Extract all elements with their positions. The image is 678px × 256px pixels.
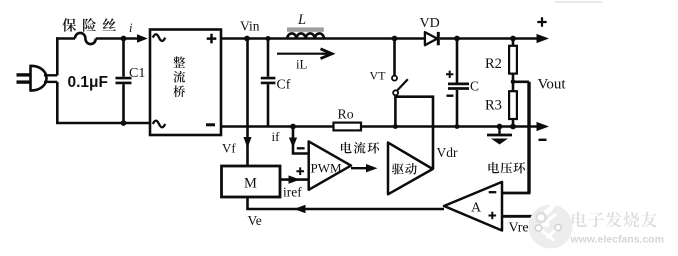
svg-text:www.elecfans.com: www.elecfans.com bbox=[570, 234, 665, 246]
node: R3 bottom bbox=[510, 124, 516, 130]
svg-text:Vf: Vf bbox=[222, 141, 236, 156]
label 电压环 bbox=[488, 162, 499, 173]
svg-text:VD: VD bbox=[420, 16, 440, 31]
wire: plug terminals bbox=[44, 74, 57, 76]
arrow iL bbox=[277, 53, 322, 55]
resistor R2 bbox=[512, 39, 515, 46]
bridge - pin bbox=[206, 123, 215, 126]
svg-text:Cf: Cf bbox=[277, 77, 291, 92]
svg-text:0.1μF: 0.1μF bbox=[68, 74, 109, 91]
node: C bottom on bus bbox=[455, 124, 460, 129]
svg-text:Vin: Vin bbox=[240, 19, 260, 34]
svg-text:iL: iL bbox=[296, 58, 308, 72]
node: ground junction bbox=[497, 124, 503, 130]
arrow into driver bbox=[366, 164, 378, 172]
watermark text 电子发烧友 bbox=[572, 212, 587, 227]
output arrow + terminal bbox=[537, 34, 550, 43]
wire: divider tap to error amp - input bbox=[511, 80, 516, 85]
wire: PWM out to driver bbox=[351, 167, 368, 169]
wire: top bus after diode bbox=[440, 37, 539, 40]
wire: Vref into + input bbox=[502, 215, 537, 218]
wire: top bus (bridge+ to diode) bbox=[221, 37, 425, 40]
bridge ~ pin (top) bbox=[153, 34, 165, 41]
C polarity - bbox=[447, 94, 454, 96]
arrow: if downward bbox=[289, 138, 297, 149]
svg-text:C: C bbox=[470, 79, 479, 94]
svg-text:if: if bbox=[272, 129, 281, 144]
label - (output) bbox=[539, 139, 547, 141]
fuse (breaker hump) bbox=[75, 33, 96, 44]
svg-text:i: i bbox=[129, 21, 133, 35]
inductor L winding bbox=[287, 33, 324, 38]
label + (PWM input) bbox=[296, 167, 304, 175]
wire: if sense into PWM - input bbox=[293, 127, 309, 154]
label - (A input) bbox=[489, 191, 497, 193]
diode VD bbox=[425, 32, 437, 45]
svg-text:C1: C1 bbox=[129, 66, 145, 81]
comparator PWM bbox=[309, 141, 351, 189]
label + (output) bbox=[537, 17, 546, 26]
resistor R3 bbox=[509, 91, 517, 119]
arrow: Vf downward bbox=[243, 137, 251, 148]
wire: fuse to bridge bbox=[96, 37, 140, 40]
wire: Ve feedback from A to M bbox=[248, 197, 445, 209]
node: C1 bottom junction bbox=[121, 120, 127, 126]
wire: iref from M to PWM + input bbox=[280, 178, 309, 181]
multiplier M bbox=[222, 166, 281, 197]
svg-text:Vdr: Vdr bbox=[437, 145, 458, 160]
svg-text:A: A bbox=[471, 201, 482, 216]
ground symbol bbox=[498, 127, 500, 135]
capacitor C1 (0.1uF line filter) bbox=[122, 39, 125, 77]
wire: left vertical (line side) bbox=[56, 37, 59, 75]
driver 驱动 bbox=[388, 143, 433, 195]
capacitor Cf bbox=[267, 39, 270, 77]
bridge + pin bbox=[207, 34, 217, 44]
svg-text:R3: R3 bbox=[485, 98, 502, 114]
watermark logo circle bbox=[529, 205, 573, 249]
resistor Ro (current sense) bbox=[334, 123, 362, 131]
label 电流环 bbox=[341, 142, 352, 153]
svg-text:PWM: PWM bbox=[311, 161, 343, 176]
svg-text:M: M bbox=[244, 176, 257, 192]
capacitor C (output electrolytic) bbox=[456, 39, 459, 83]
node Vin bbox=[244, 36, 250, 42]
label + (A input) bbox=[489, 212, 497, 220]
svg-text:VT: VT bbox=[370, 69, 387, 83]
output arrow - terminal bbox=[537, 122, 550, 131]
rectifier bridge U1 整流桥 bbox=[150, 30, 221, 136]
bridge ~ pin (bottom) bbox=[153, 121, 165, 128]
op-amp A (voltage error amp) bbox=[444, 182, 502, 231]
wire: bottom bus bbox=[221, 125, 334, 128]
svg-text:Ve: Ve bbox=[248, 213, 262, 228]
faint artifact line top right bbox=[555, 1, 602, 3]
arrow iref bbox=[289, 175, 301, 183]
C polarity + bbox=[446, 71, 453, 78]
svg-text:R2: R2 bbox=[485, 56, 502, 72]
node: if sense junction bbox=[290, 124, 296, 130]
label - (PWM input) bbox=[297, 147, 305, 149]
AC plug bbox=[17, 73, 31, 76]
label 驱动 bbox=[392, 163, 404, 174]
label 保险丝 bbox=[62, 18, 76, 31]
switch/transistor VT bbox=[392, 36, 398, 42]
svg-text:Ro: Ro bbox=[338, 107, 354, 122]
svg-text:Vout: Vout bbox=[538, 77, 567, 93]
svg-text:L: L bbox=[297, 12, 306, 28]
wire: Vf sense (Vin down to multiplier M) bbox=[246, 39, 249, 167]
wire: top-left loop top segment bbox=[56, 37, 75, 40]
node: C1 top junction bbox=[121, 36, 127, 42]
switch lever bbox=[397, 79, 407, 90]
svg-text:iref: iref bbox=[283, 185, 302, 200]
node: output cap junction bbox=[454, 36, 460, 42]
arrow: input current i into bridge bbox=[137, 34, 148, 42]
wire: gate drive from driver to VT bbox=[395, 97, 433, 169]
arrow Ve (leftward) bbox=[294, 205, 306, 213]
inductor L core bar bbox=[287, 27, 324, 31]
label 整流桥 (vertical) bbox=[173, 56, 185, 67]
node: R2 top bbox=[510, 36, 516, 42]
node: VT emitter on bus bbox=[393, 124, 398, 129]
